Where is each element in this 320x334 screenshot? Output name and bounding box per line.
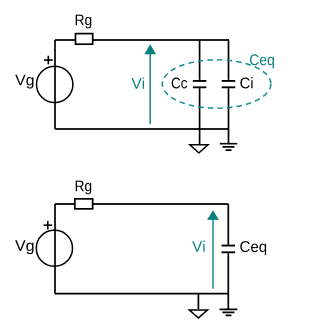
label Vg (bottom circuit) (15, 240, 33, 254)
wire: stub to triangle ground (bottom circuit) (197, 294, 199, 310)
wire: top horizontal (source top to right corner) (55, 39, 229, 41)
label Vi (top circuit, teal) (132, 78, 145, 89)
wire: Ci branch vertical lower down to chassis ground (228, 88, 230, 143)
label Ceq (teal, top circuit) (250, 54, 274, 68)
dashed ellipse Ceq grouping (162, 60, 271, 108)
voltage source Vg (top circuit) (37, 66, 73, 102)
wire: Ceq branch vertical lower (227, 253, 229, 293)
wire: Cc branch vertical upper (199, 40, 201, 80)
wire: bottom horizontal (55, 128, 229, 130)
wire: left vertical branch (bottom circuit) (54, 204, 56, 294)
label Rg (bottom circuit) (76, 181, 92, 195)
wire: top horizontal (bottom circuit) (55, 203, 228, 205)
resistor Rg (top circuit) (76, 34, 93, 45)
wire: left vertical branch through source (54, 40, 56, 129)
wire: stub to chassis ground (bottom circuit) (227, 294, 229, 310)
wire: Ceq branch vertical upper (227, 204, 229, 245)
arrow Vi (top circuit) (149, 54, 151, 124)
plus sign (bottom source polarity) (44, 221, 53, 230)
capacitor Cc plates (193, 81, 207, 87)
ground (earth triangle, bottom circuit) (189, 310, 207, 318)
label Ceq (black, bottom circuit) (240, 241, 266, 255)
label Vi (bottom circuit, teal) (192, 241, 204, 252)
wire: Ci branch vertical upper (228, 40, 230, 80)
resistor Rg (bottom circuit) (75, 199, 93, 209)
label Cc (172, 78, 187, 89)
wire: Cc branch vertical lower down to triangle ground (199, 88, 201, 144)
arrow Vi (bottom circuit) (212, 219, 214, 289)
plus sign (top source polarity) (44, 56, 53, 65)
label Rg (top circuit) (76, 15, 92, 29)
label Ci (240, 77, 252, 88)
wire: bottom horizontal (bottom circuit) (55, 293, 228, 295)
capacitor Ci plates (222, 81, 236, 87)
ground (signal ground 3-bar, bottom circuit) (220, 309, 238, 315)
ground (signal ground 3-bar, top circuit) (220, 144, 237, 150)
label Vg (top circuit) (15, 75, 33, 89)
ground (earth triangle, top circuit) (190, 145, 208, 153)
voltage source Vg (bottom circuit) (36, 230, 72, 266)
capacitor Ceq plates (222, 246, 236, 253)
